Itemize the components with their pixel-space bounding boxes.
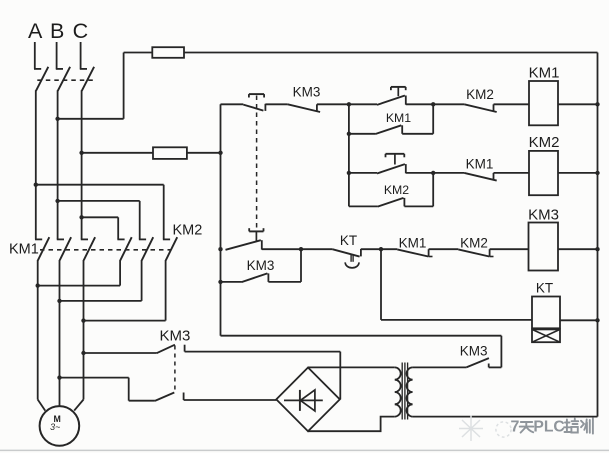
svg-text:B: B bbox=[50, 19, 64, 43]
svg-text:KM3: KM3 bbox=[247, 258, 275, 273]
svg-text:KM2: KM2 bbox=[529, 134, 560, 151]
svg-text:KM1: KM1 bbox=[386, 111, 411, 125]
svg-text:KM2: KM2 bbox=[173, 223, 203, 239]
svg-text:KM1: KM1 bbox=[466, 157, 494, 172]
svg-text:KM3: KM3 bbox=[160, 328, 191, 345]
svg-text:KM1: KM1 bbox=[529, 65, 560, 82]
svg-text:KT: KT bbox=[340, 233, 357, 248]
svg-text:KM2: KM2 bbox=[466, 87, 494, 102]
svg-text:KM1: KM1 bbox=[399, 235, 427, 250]
svg-text:KM2: KM2 bbox=[384, 183, 409, 197]
svg-text:KM3: KM3 bbox=[293, 85, 321, 100]
svg-text:3~: 3~ bbox=[50, 422, 60, 432]
svg-text:KM3: KM3 bbox=[528, 207, 559, 224]
svg-text:KT: KT bbox=[536, 281, 553, 296]
svg-text:KM2: KM2 bbox=[460, 236, 488, 251]
svg-text:C: C bbox=[73, 19, 89, 43]
svg-text:PLC: PLC bbox=[533, 419, 564, 436]
svg-text:KM1: KM1 bbox=[9, 242, 39, 258]
svg-text:7: 7 bbox=[511, 419, 520, 436]
svg-text:A: A bbox=[28, 19, 43, 43]
svg-text:KM3: KM3 bbox=[460, 344, 488, 359]
